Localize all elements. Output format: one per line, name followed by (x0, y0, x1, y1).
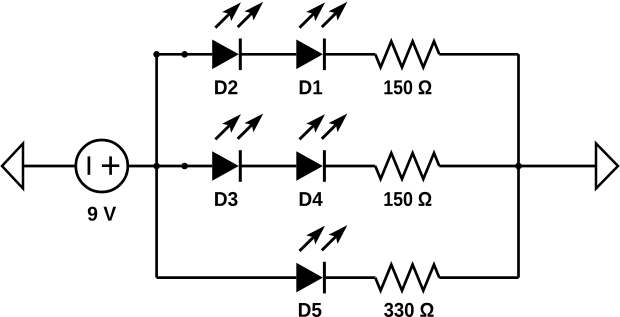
junction node top-left (153, 51, 160, 58)
wire top branch: bus to D2 (157, 53, 213, 56)
LED D1 (295, 0, 352, 70)
wire middle branch: node A to D3 (157, 165, 213, 168)
wire R1 to right bus (439, 53, 518, 56)
wire R2 to node B (439, 165, 518, 168)
wire bottom branch: bus to D5 (157, 276, 297, 279)
wire node B to right port (519, 165, 597, 168)
resistor R3 (330 ohm, bottom) (375, 265, 439, 291)
D4 label (300, 192, 323, 206)
V1 minus bar (88, 156, 91, 174)
D3 label (215, 192, 237, 206)
wire source V1 to node A (128, 165, 157, 168)
wire D1 to R1 (324, 53, 375, 56)
wire left port to source V1 (23, 165, 76, 168)
R1 value label 150 ohm (384, 80, 431, 94)
LED D4 (295, 109, 352, 182)
LED D2 (211, 0, 268, 70)
D5 label (299, 303, 322, 317)
port terminal right (output arrow) (596, 144, 618, 189)
left bus wire (vertical) (155, 54, 158, 277)
junction node top second (181, 51, 188, 58)
D2 label (215, 80, 237, 94)
D1 label (300, 80, 323, 94)
V1 plus sign (102, 164, 119, 167)
resistor R2 (150 ohm, middle) (375, 153, 439, 179)
resistor R1 (150 ohm, top) (375, 41, 439, 67)
LED D5 (295, 221, 352, 294)
right bus wire (vertical) (517, 54, 520, 277)
R2 value label 150 ohm (384, 192, 431, 206)
junction node middle second (181, 163, 188, 170)
R3 value label 330 ohm (384, 303, 434, 317)
voltage source V1 (circle) (76, 140, 128, 192)
wire D3 to D4 (240, 165, 296, 168)
junction node B (right bus middle) (515, 163, 522, 170)
port terminal left (input arrow) (2, 144, 23, 189)
wire D4 to R2 (324, 165, 375, 168)
wire R3 to right bus (439, 276, 518, 279)
wire D2 to D1 (240, 53, 296, 56)
LED D3 (211, 109, 268, 182)
junction node A (left bus middle) (153, 163, 160, 170)
wire D5 to R3 (324, 276, 375, 279)
V1 value label 9 V (88, 207, 116, 221)
